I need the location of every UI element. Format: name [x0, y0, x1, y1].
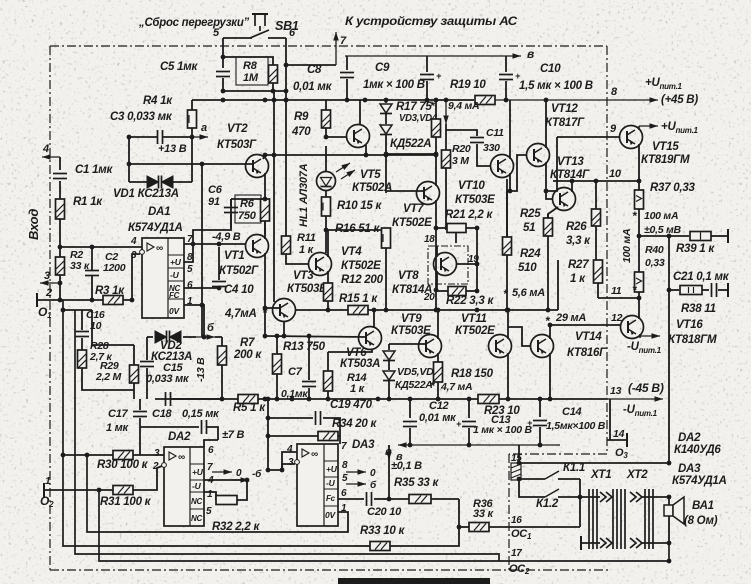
svg-text:2: 2	[152, 461, 159, 472]
svg-text:R5 1 к: R5 1 к	[233, 402, 266, 414]
wire node to DA1 pin4	[60, 246, 142, 248]
wire R36 node	[458, 499, 460, 527]
wire negative bus	[155, 398, 606, 400]
wire R3 to DA1	[123, 254, 140, 300]
wire VT7 emitter	[435, 200, 437, 310]
terminal R39 out	[727, 229, 729, 243]
svg-text:DA2: DA2	[168, 431, 191, 443]
svg-text:С11: С11	[486, 127, 504, 139]
resistor R1	[56, 199, 65, 219]
wire R34 right	[338, 435, 340, 437]
transistor VT6 KT503A	[359, 327, 382, 350]
svg-text:VT2: VT2	[227, 123, 248, 135]
svg-text:9,4 мА: 9,4 мА	[448, 100, 479, 112]
wire R10 to R16 node	[326, 229, 386, 231]
resistor R19	[475, 96, 495, 105]
svg-text:КТ502Е: КТ502Е	[455, 325, 495, 337]
svg-text:R35 33 к: R35 33 к	[394, 477, 440, 489]
wire node 11	[598, 297, 639, 299]
svg-text:R19 10: R19 10	[450, 79, 486, 91]
wire VT2 collector to R17	[265, 154, 436, 156]
wire VT7 collector	[435, 154, 437, 186]
svg-text:+13 В: +13 В	[158, 143, 187, 155]
wire R20 bottom	[445, 168, 447, 230]
wire node 9 to VT15 base	[557, 136, 619, 138]
wire R4 top	[191, 100, 193, 110]
svg-text:К140УД6: К140УД6	[674, 444, 721, 456]
svg-text:С20 10: С20 10	[367, 506, 402, 518]
terminal O2	[43, 483, 45, 497]
wire VT14 collector	[549, 325, 551, 339]
svg-text:DA3: DA3	[678, 463, 701, 475]
svg-text:1,5мк×100 В: 1,5мк×100 В	[546, 420, 606, 432]
svg-text:1М: 1М	[243, 72, 259, 84]
svg-text:33 к: 33 к	[473, 508, 495, 520]
wire node9 drop	[546, 137, 557, 191]
wire C5 bottom	[223, 78, 286, 91]
svg-text:+U: +U	[170, 257, 182, 267]
zener pair VD2 KC213A	[155, 331, 181, 344]
svg-text:R24: R24	[520, 248, 541, 260]
wire R1 to node	[59, 219, 61, 257]
capacitor C10	[499, 71, 521, 81]
svg-text:С12: С12	[429, 400, 449, 412]
wire DA1 pin8 loop	[184, 199, 231, 262]
wire C14 bottom	[539, 427, 541, 445]
transistor VT15 KT819GM	[620, 126, 643, 149]
wire VT10 collector	[509, 100, 511, 159]
wire XT top right	[642, 496, 669, 498]
wire DA3 OV loop	[338, 512, 348, 532]
svg-text:330: 330	[483, 142, 500, 154]
wire long vertical to VT3	[273, 91, 275, 302]
wire C9 vertical	[426, 56, 428, 72]
wire C10 vertical lower	[505, 81, 507, 100]
svg-text:100 мА: 100 мА	[621, 229, 633, 263]
svg-text:VT15: VT15	[652, 141, 679, 153]
wire VT2 collector	[263, 155, 265, 159]
wire VT11 to VT14 base	[508, 327, 531, 346]
label R6 750 box	[235, 195, 261, 223]
wire C12 top	[409, 399, 411, 418]
wire C17 down	[139, 418, 141, 455]
junction dot sense	[667, 288, 672, 293]
junction dot VT6 base wire	[275, 308, 377, 339]
wire VD1 left	[129, 181, 147, 183]
current arrow 9.4mA	[443, 100, 449, 124]
wire R2 bottom	[59, 275, 61, 300]
junction dot VT5 emitter	[364, 153, 439, 158]
wire R7 top	[221, 337, 223, 346]
wire C11 branch	[446, 130, 477, 136]
wire R26 to R27	[595, 226, 597, 260]
wire sense down to output	[668, 290, 670, 462]
wire negative bus arrow	[606, 396, 663, 402]
capacitor C15	[140, 362, 154, 367]
resistor R14	[324, 371, 333, 391]
wire C6 top	[230, 199, 232, 206]
wire R9 bottom	[325, 128, 327, 137]
svg-text:R9: R9	[294, 111, 309, 123]
svg-text:750: 750	[238, 210, 257, 222]
wire VT13 collector up	[571, 181, 573, 192]
wire R22 right	[466, 290, 477, 292]
transistor VT8 KT814A	[434, 253, 457, 276]
svg-text:16: 16	[511, 515, 522, 526]
svg-text:R12 200: R12 200	[341, 274, 384, 286]
svg-text:4,7мА: 4,7мА	[224, 308, 257, 320]
capacitor C5	[216, 72, 230, 77]
svg-text:DA1: DA1	[148, 206, 170, 218]
junction dot 15	[517, 461, 522, 466]
wire C13 bottom	[468, 428, 470, 445]
svg-text:3,3 к: 3,3 к	[566, 235, 591, 247]
resistor R38	[680, 286, 702, 295]
transistor VT4 KT502E	[309, 253, 332, 276]
svg-text:R31 100 к: R31 100 к	[100, 496, 152, 508]
terminal C21 out	[727, 283, 729, 297]
svg-text:DA2: DA2	[678, 432, 701, 444]
wire DA1 pin7 to VT1 base	[184, 243, 246, 245]
svg-text:С21 0,1 мк: С21 0,1 мк	[673, 271, 730, 283]
label R8 1M	[236, 57, 268, 85]
wire DA1 pin6 right	[184, 287, 219, 289]
wire mid bus right up	[557, 260, 559, 310]
module border dash-dot left edge	[49, 46, 51, 570]
resistor R33	[370, 542, 390, 551]
wire C15 drop	[146, 337, 148, 360]
arrow DA3 pin8	[346, 469, 366, 475]
svg-text:R26: R26	[566, 221, 587, 233]
wire R11 bottom	[286, 254, 309, 264]
resistor R11	[282, 236, 291, 254]
wire VT10 emitter	[507, 173, 510, 237]
terminal strip XT1	[589, 489, 597, 549]
op-amp DA3 K574UD1A	[295, 444, 338, 526]
capacitor C16	[75, 332, 89, 337]
arrow DA2 pin4	[232, 477, 249, 483]
svg-text:R21 2,2 к: R21 2,2 к	[445, 209, 493, 221]
arrow node 3	[40, 280, 60, 286]
capacitor C4	[212, 282, 226, 287]
junction dot VT5 base	[324, 135, 329, 140]
svg-text:R27: R27	[568, 259, 589, 271]
wire fb top right	[323, 418, 340, 444]
resistor R39	[690, 232, 711, 241]
wire VT5 emitter	[365, 145, 367, 155]
svg-text:ХТ2: ХТ2	[626, 469, 648, 481]
svg-text:ВА1: ВА1	[692, 500, 714, 512]
svg-text:КТ503Е: КТ503Е	[287, 283, 327, 295]
svg-text:С10: С10	[540, 63, 561, 75]
svg-text:ХТ1: ХТ1	[590, 469, 611, 481]
junction dots DA3 in	[266, 397, 285, 473]
wire R31 to DA2 pin2	[133, 466, 162, 490]
resistor R5	[238, 395, 258, 404]
svg-text:R38 11: R38 11	[681, 303, 716, 315]
resistor R16 symbol	[382, 228, 391, 248]
svg-text:R13 750: R13 750	[283, 341, 326, 353]
svg-text:КТ814Г: КТ814Г	[550, 169, 590, 181]
svg-text:VT14: VT14	[575, 331, 602, 343]
junction dot 11 node	[637, 296, 642, 301]
wire C14 top	[539, 399, 541, 417]
wire C8 vertical lower	[346, 79, 348, 100]
svg-text:8: 8	[342, 460, 348, 471]
wire C16 top tie	[63, 309, 92, 311]
svg-text:К1.2: К1.2	[536, 498, 559, 510]
svg-text:-U: -U	[326, 478, 336, 488]
svg-text:VD1 КС213А: VD1 КС213А	[113, 188, 179, 200]
transistor VT9 KT503E	[419, 335, 442, 358]
svg-text:R11: R11	[297, 232, 316, 244]
junction dot VT2 base	[127, 135, 389, 167]
svg-text:R7: R7	[240, 337, 255, 349]
wire C4 vertical top	[218, 247, 220, 280]
svg-text:R25: R25	[520, 208, 541, 220]
svg-text:91: 91	[208, 196, 220, 208]
resistor R36	[469, 523, 489, 532]
wire VT12 emitter	[545, 162, 547, 191]
resistor R22	[448, 287, 466, 296]
wire return bus 4	[87, 455, 340, 532]
wire DA2 pin4 out	[204, 479, 248, 481]
arrow v down	[386, 445, 392, 460]
wire VD5-VD6	[388, 361, 390, 370]
resistor R26	[592, 209, 601, 227]
wire R36 left	[459, 526, 469, 528]
svg-text:∞: ∞	[156, 243, 163, 254]
svg-text:6: 6	[187, 280, 193, 291]
junction dots R30/R31	[61, 453, 102, 493]
resistor R20	[442, 150, 451, 168]
wire VT4 collector drop	[325, 230, 327, 253]
wire VD2 left	[147, 336, 153, 338]
svg-text:-U: -U	[192, 481, 202, 491]
wire DA2 pin1 link	[204, 492, 216, 500]
wire R30 right	[133, 454, 160, 456]
resistor R13	[273, 354, 282, 374]
resistor R21	[447, 224, 466, 233]
svg-text:КТ817Г: КТ817Г	[545, 117, 585, 129]
wire R32 right	[237, 480, 247, 500]
resistor R40	[635, 272, 644, 292]
wire VT7 base	[386, 190, 424, 192]
junction dots output node	[637, 234, 672, 239]
arrow DA3 pin5	[346, 481, 366, 487]
svg-text:0,01 мк: 0,01 мк	[419, 412, 457, 424]
svg-text:R37 0,33: R37 0,33	[650, 182, 696, 194]
transistor VT12 KT817G	[527, 144, 550, 167]
svg-text:R30 100 к: R30 100 к	[97, 459, 149, 471]
svg-text:а: а	[201, 122, 207, 134]
svg-text:VT1: VT1	[224, 250, 244, 262]
svg-text:17: 17	[511, 548, 522, 559]
wire R14 bottom	[327, 391, 329, 399]
svg-text:КТ502Е: КТ502Е	[392, 217, 432, 229]
svg-text:С6: С6	[208, 184, 223, 196]
svg-text:VT7: VT7	[403, 203, 424, 215]
wire R40 top	[638, 236, 640, 272]
capacitor C2	[85, 271, 99, 276]
wire VT11 collector	[507, 310, 509, 339]
svg-text:КТ816Г: КТ816Г	[567, 347, 607, 359]
connector chevrons top row	[600, 492, 642, 502]
wire VT6 collector	[373, 310, 375, 328]
arrow test point b	[196, 334, 215, 340]
svg-text:С17: С17	[108, 408, 129, 420]
resistor R35	[409, 495, 431, 504]
wire VT2 emitter	[264, 173, 266, 199]
svg-text:51: 51	[523, 222, 535, 234]
transistor VT14 KT816G	[531, 335, 554, 358]
svg-text:100 мА: 100 мА	[644, 210, 678, 222]
wire VT8 base right	[456, 263, 477, 265]
capacitor C6	[224, 208, 238, 213]
junction dot R35/C20	[387, 497, 392, 502]
arrow node a	[192, 134, 208, 140]
terminal strip XT2 right	[645, 489, 653, 549]
wire VT4 emitter	[327, 271, 329, 283]
terminal strip XT2 left	[613, 489, 625, 549]
wire VD3-VD4	[385, 114, 387, 124]
wire rail v with arrow	[345, 53, 521, 59]
wire fb top	[268, 417, 313, 419]
wire VD1 right	[173, 181, 192, 183]
wire VT3 emitter	[283, 321, 285, 336]
svg-text:1,5 мк × 100 В: 1,5 мк × 100 В	[519, 80, 593, 92]
wire input top	[59, 157, 61, 170]
resistor R34	[318, 432, 338, 441]
junction dot x63	[61, 308, 66, 313]
wire R29 bottom	[133, 383, 135, 399]
wire R13 top	[276, 336, 278, 354]
wire R9 top	[325, 100, 327, 110]
terminal XT bottom left	[580, 536, 582, 550]
capacitor C12	[403, 422, 417, 427]
capacitor C11	[470, 138, 484, 143]
svg-text:VT9: VT9	[401, 313, 422, 325]
svg-text:К1.1: К1.1	[563, 462, 585, 474]
capacitor C18	[166, 392, 171, 406]
wire fb mid	[268, 435, 318, 437]
svg-text:VT16: VT16	[676, 319, 703, 331]
arrow to AC protection node 7	[333, 32, 339, 65]
svg-text:б: б	[370, 479, 377, 491]
wire C12 bottom	[409, 428, 411, 445]
arrow VT15 collector +Upit	[639, 123, 658, 130]
wire C1 to R1	[59, 181, 61, 199]
svg-text:1200: 1200	[103, 262, 126, 274]
wire C21 right	[718, 289, 727, 291]
wire R33 right	[390, 527, 459, 546]
svg-text:14: 14	[613, 428, 625, 440]
resistor R17	[432, 119, 441, 137]
wire C9 vertical lower	[426, 81, 428, 100]
diode VD5	[383, 351, 395, 361]
wire C7 top	[308, 336, 310, 380]
wire DA1 pin1 down	[184, 305, 204, 337]
svg-text:R3 1к: R3 1к	[95, 285, 125, 297]
svg-text:Вход: Вход	[26, 209, 41, 240]
wire R17 bottom	[435, 137, 437, 154]
wire SB1 left	[223, 37, 252, 39]
junction dots mid bus	[326, 308, 551, 313]
svg-text:КТ818ГМ: КТ818ГМ	[668, 334, 717, 346]
wire R14 top	[327, 352, 329, 371]
svg-text:10: 10	[609, 168, 622, 180]
svg-text:(8 Ом): (8 Ом)	[684, 515, 718, 527]
wire C2 top	[91, 247, 93, 270]
svg-text:3: 3	[154, 448, 160, 459]
wire speaker right	[668, 497, 670, 543]
svg-text:С8: С8	[307, 64, 322, 76]
junction dots negative bus	[220, 397, 553, 402]
wire C4 below	[218, 287, 220, 289]
module border dash-dot top edge	[50, 45, 607, 47]
svg-text:VT11: VT11	[461, 313, 487, 325]
junction dots VD/R17	[384, 152, 439, 157]
wire C16 to R28	[81, 338, 83, 350]
capacitor C8	[340, 73, 354, 78]
wire 12 node	[549, 324, 612, 326]
wire R20 top	[445, 124, 447, 150]
wire fb line y400 left	[154, 398, 156, 400]
svg-text:NC: NC	[191, 497, 203, 506]
transistor VT10 KT503E	[491, 155, 514, 178]
svg-text:К574УД1А: К574УД1А	[128, 222, 183, 234]
wire R38 to C21	[702, 289, 709, 291]
wire R6 chain down	[264, 253, 266, 336]
module border dash-dot bottom edge	[50, 569, 610, 571]
resistor R2	[56, 257, 65, 275]
svg-text:С3 0,033 мк: С3 0,033 мк	[110, 111, 173, 123]
wire VT8 collector	[436, 246, 438, 257]
wire VT1 collector	[264, 221, 266, 239]
svg-text:5,6 мА: 5,6 мА	[512, 287, 545, 299]
junction dots VT7 emitter chain	[434, 226, 439, 293]
resistor R3	[103, 296, 123, 305]
svg-text:0,15 мк: 0,15 мк	[182, 408, 220, 420]
junction dot R4/C3	[190, 135, 195, 140]
svg-text:С7: С7	[288, 366, 303, 378]
wire LED top	[325, 146, 327, 172]
svg-text:18: 18	[424, 234, 435, 245]
relay contact K1.1	[545, 471, 559, 479]
wire R33 left	[355, 545, 370, 547]
transistor VT7 KT502E	[417, 182, 440, 205]
wire node6 to node7	[286, 64, 336, 66]
wire R25 bottom	[547, 236, 549, 310]
wire R24 bottom	[506, 255, 508, 310]
wire VD chain down to VT7 base	[385, 154, 387, 193]
resistor R18	[434, 362, 443, 382]
svg-text:R15 1 к: R15 1 к	[339, 293, 378, 305]
resistor R30	[113, 451, 133, 460]
wire R37 top	[638, 181, 640, 190]
svg-text:R20: R20	[452, 143, 471, 155]
svg-text:-13 В: -13 В	[195, 357, 207, 382]
svg-text:5: 5	[206, 506, 212, 517]
junction dots output	[667, 461, 672, 564]
wire R7 bottom	[221, 365, 223, 399]
LED HL1 AL307A	[317, 172, 336, 191]
wire DA2 pin6 up	[204, 440, 218, 447]
wire VT13 emitter down	[548, 207, 558, 218]
wire R28 bottom	[82, 368, 134, 390]
capacitor C3	[158, 130, 163, 144]
wire -45V to O3	[609, 399, 611, 440]
